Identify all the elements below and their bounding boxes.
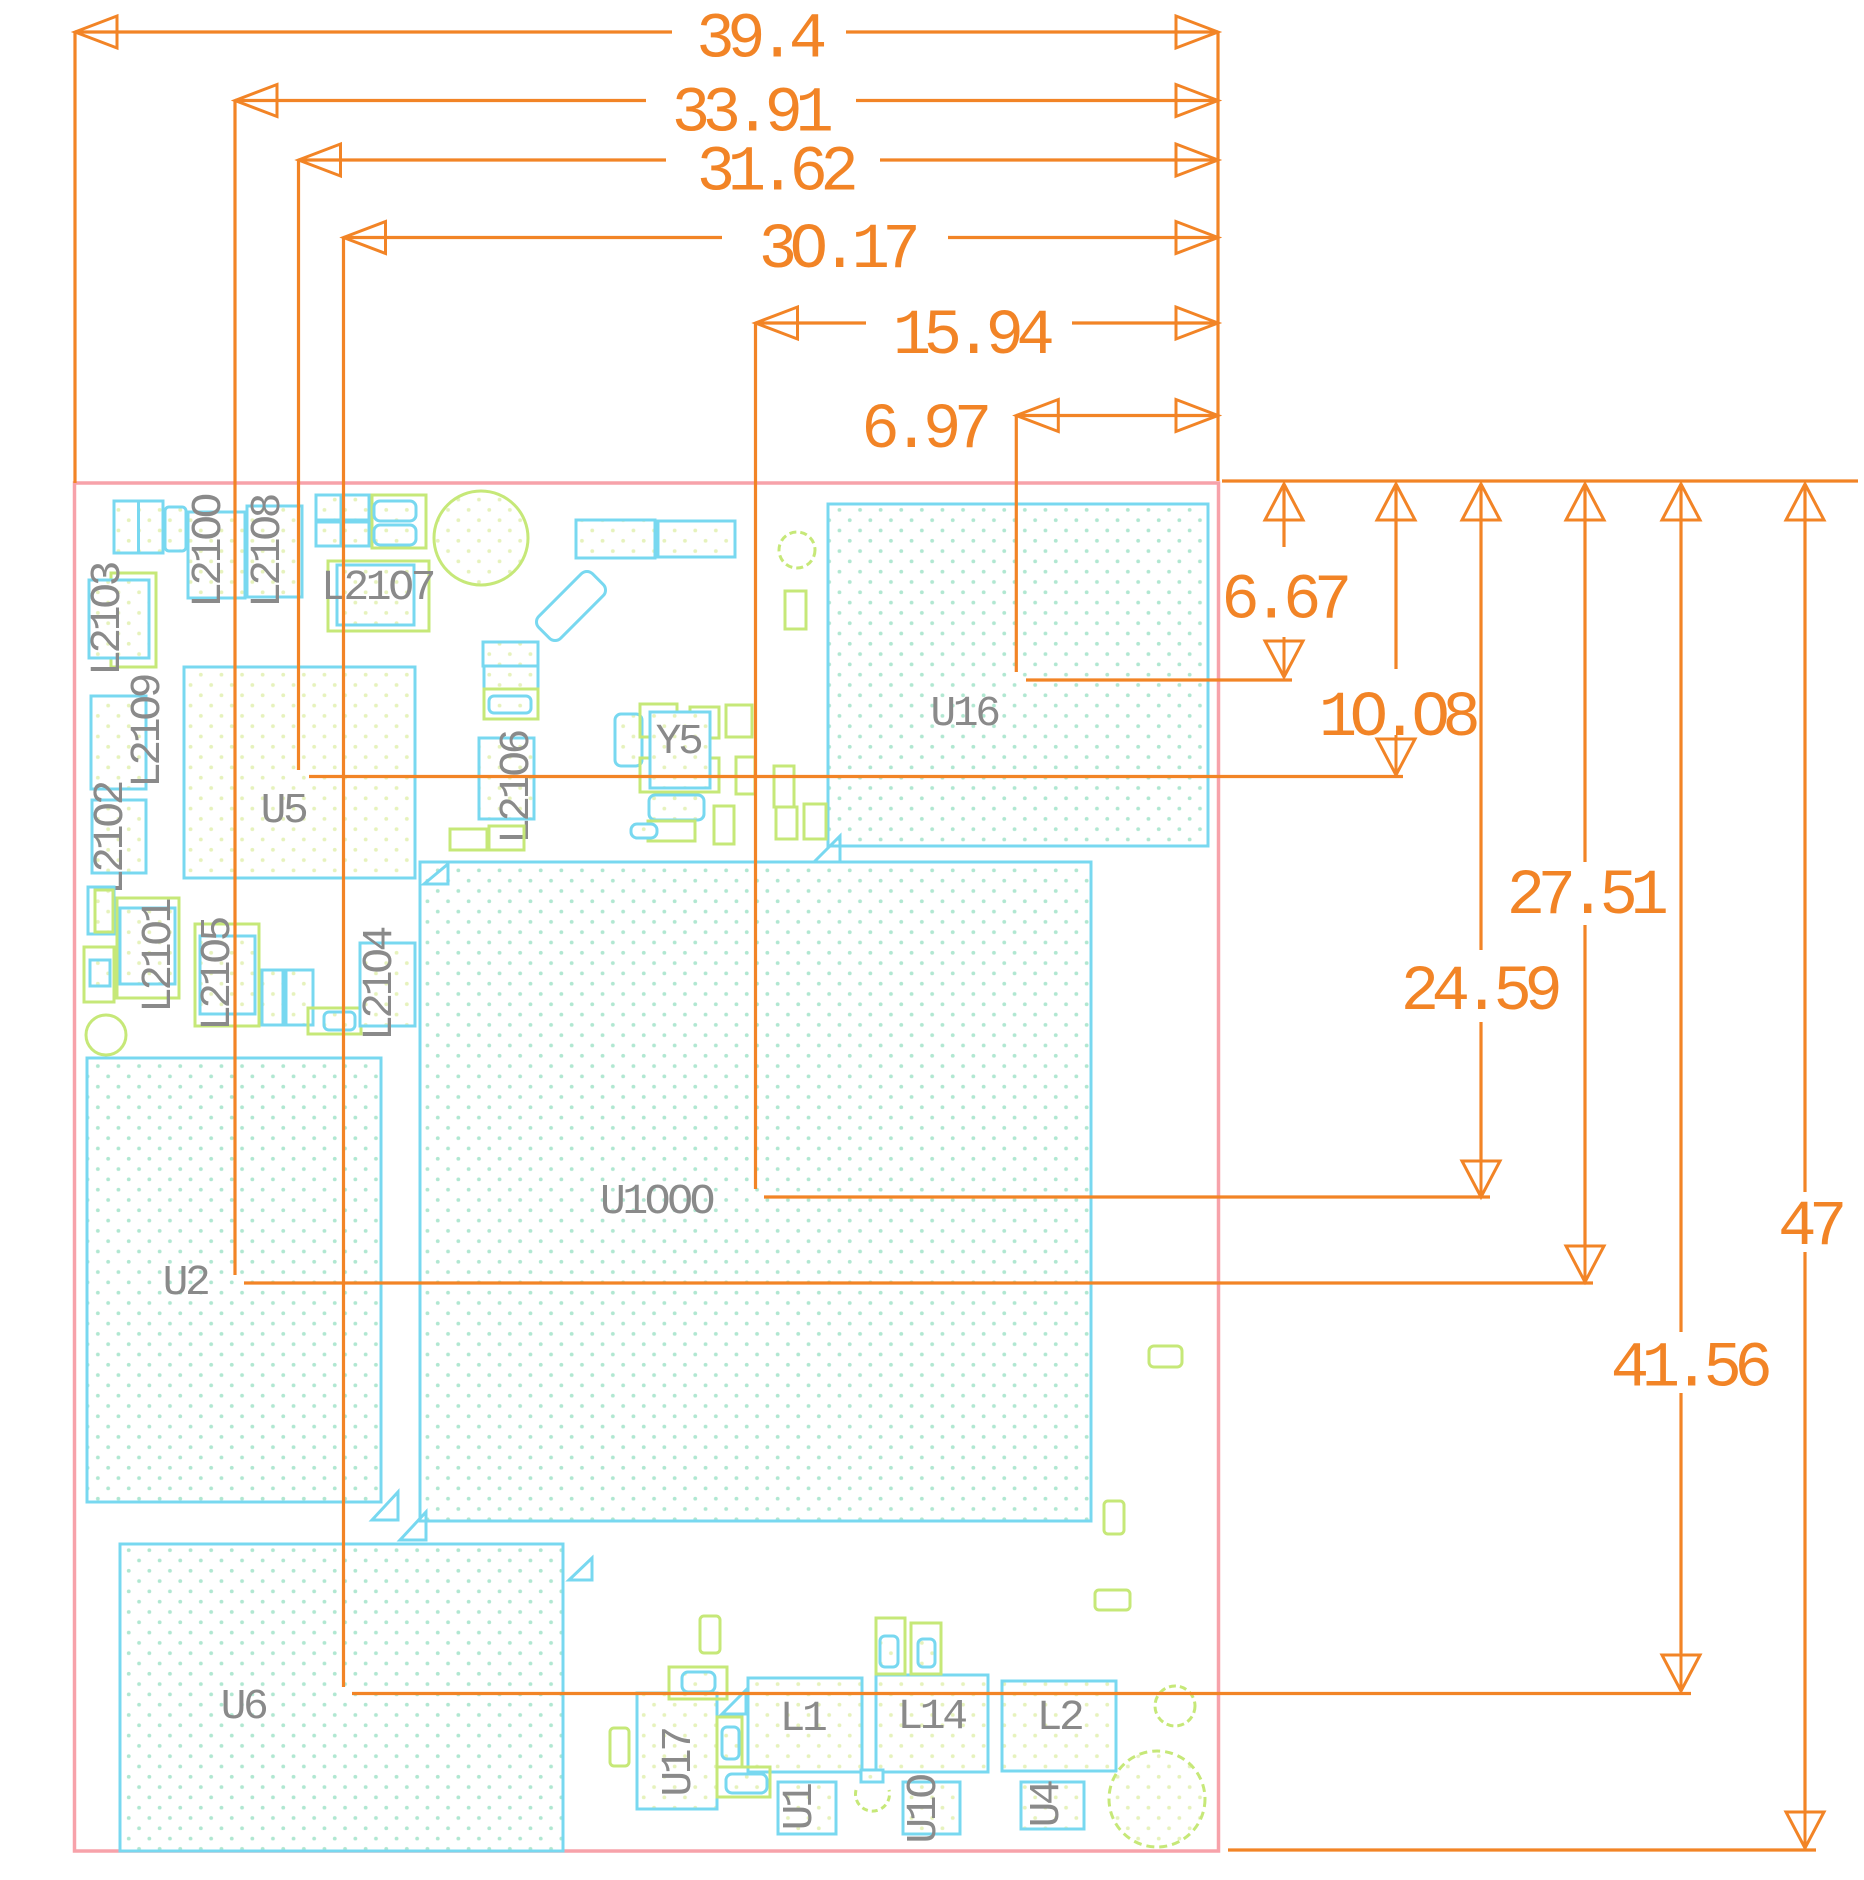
svg-text:L21O2: L21O2 — [86, 782, 135, 895]
svg-text:U6: U6 — [221, 1682, 267, 1731]
part on top of U17 — [669, 1667, 727, 1699]
green part — [1095, 1590, 1130, 1610]
svg-text:L21O7: L21O7 — [321, 563, 434, 612]
bottom reference line right — [1228, 1848, 1816, 1851]
svg-text:L1: L1 — [780, 1694, 826, 1743]
dimension 41.56 — [1679, 484, 1682, 1332]
IC U1000 — [420, 862, 1091, 1521]
green pads above L14 — [876, 1618, 905, 1674]
svg-text:U17: U17 — [654, 1729, 703, 1797]
inductor L14 — [876, 1675, 988, 1772]
dimension 6.97 — [1016, 414, 1218, 417]
pad below Y5 — [649, 795, 704, 820]
U1000 pin marker triangles — [424, 864, 448, 884]
green part above U17 — [700, 1616, 720, 1653]
regulator U17 — [637, 1693, 717, 1809]
IC U1 — [778, 1782, 836, 1834]
mounting hole left — [86, 1015, 126, 1055]
svg-text:U4: U4 — [1022, 1781, 1071, 1827]
part between U17 and L1 — [717, 1717, 742, 1767]
crystal Y5 — [640, 704, 677, 737]
green pad right of Y5 — [726, 705, 752, 737]
IC U6 — [120, 1544, 563, 1851]
inductor L2108 body — [247, 506, 302, 597]
rotated component — [533, 568, 609, 644]
inductor L2106 — [479, 738, 534, 819]
svg-text:Y5: Y5 — [656, 717, 702, 766]
dimension 47 — [1803, 484, 1806, 1192]
svg-text:L21O8: L21O8 — [243, 495, 292, 608]
svg-text:L21O9: L21O9 — [123, 675, 172, 788]
component pair top-left — [114, 501, 163, 553]
svg-text:L14: L14 — [897, 1692, 966, 1741]
small part — [88, 887, 114, 934]
dimension 27.51 — [1583, 484, 1586, 862]
svg-text:41.56: 41.56 — [1611, 1334, 1770, 1406]
svg-text:U5: U5 — [261, 786, 307, 835]
IC U16 — [828, 504, 1208, 846]
green parts left of U16 — [736, 757, 755, 794]
IC U10 — [903, 1782, 960, 1834]
svg-text:L21OO: L21OO — [184, 494, 233, 608]
big hole bottom right — [1109, 1751, 1205, 1847]
dimension 15.94 — [756, 321, 867, 324]
inductor L2109 — [91, 696, 146, 789]
inductor L2107 — [328, 561, 429, 631]
dimension 30.17 — [344, 236, 723, 239]
dimension 39.4 — [75, 30, 672, 33]
small green part — [84, 947, 114, 1002]
svg-text:24.59: 24.59 — [1401, 957, 1559, 1029]
svg-text:47: 47 — [1778, 1192, 1843, 1264]
svg-text:1O.O8: 1O.O8 — [1319, 683, 1478, 755]
stacked pads — [483, 642, 538, 666]
inductor L1 — [748, 1678, 862, 1772]
svg-text:6.97: 6.97 — [861, 395, 988, 467]
inductor L2102 — [92, 800, 146, 873]
inductor L2 — [1002, 1681, 1116, 1771]
IC U16 green silk top/left edge — [830, 507, 1207, 846]
svg-text:L2: L2 — [1037, 1693, 1082, 1742]
mounting hole top — [434, 491, 528, 585]
green part right of U1000 — [1149, 1346, 1182, 1367]
small hole near U16 — [779, 532, 815, 568]
small pad between L1 and L14 — [861, 1770, 883, 1782]
four pads cluster — [316, 495, 341, 520]
svg-text:L21O1: L21O1 — [134, 899, 183, 1013]
top reference line right — [1222, 479, 1858, 482]
U16 pin1 marker triangle — [812, 836, 840, 864]
green part below hole — [785, 591, 806, 629]
svg-text:31.62: 31.62 — [697, 138, 855, 210]
green pads below L2106 — [450, 829, 487, 850]
svg-text:U1OOO: U1OOO — [600, 1177, 714, 1226]
svg-text:6.67: 6.67 — [1221, 566, 1348, 638]
svg-text:U2: U2 — [163, 1258, 208, 1307]
wide pad A — [576, 520, 655, 558]
wide pad B — [658, 521, 735, 557]
inductor L2104 — [360, 943, 415, 1026]
green pad — [714, 806, 734, 844]
dimension 10.08 — [1394, 484, 1397, 669]
inductor L2103 — [111, 573, 156, 667]
crystal Y5 side pad — [615, 714, 642, 766]
svg-text:U1O: U1O — [899, 1775, 948, 1844]
board outline (PCB edge) — [75, 483, 1219, 1851]
svg-text:L21O3: L21O3 — [83, 562, 132, 676]
pin marker near L1 — [722, 1690, 746, 1714]
part below — [717, 1767, 770, 1797]
pad bar below Y5 — [648, 821, 695, 841]
inductor L2101 — [117, 898, 179, 998]
small part with green — [308, 1008, 361, 1034]
IC U4 — [1021, 1782, 1084, 1829]
IC U5 — [184, 667, 415, 878]
two pads — [262, 970, 283, 1025]
dimension 31.62 — [299, 158, 667, 161]
svg-text:U16: U16 — [930, 689, 999, 738]
green component with two pads — [372, 495, 426, 548]
green part — [1104, 1501, 1124, 1534]
svg-text:27.51: 27.51 — [1507, 861, 1667, 933]
svg-text:39.4: 39.4 — [696, 5, 825, 77]
inductor L2100 body — [188, 512, 245, 598]
dimension 24.59 — [1479, 484, 1482, 950]
svg-text:3O.17: 3O.17 — [759, 215, 917, 287]
dimension 33.91 — [235, 99, 646, 102]
small part — [165, 507, 186, 551]
inductor L2105 — [195, 924, 259, 1026]
IC U2 — [87, 1058, 381, 1502]
small hole bottom right — [1155, 1686, 1195, 1726]
dimension 6.67 — [1282, 484, 1285, 547]
green part left of U17 — [610, 1728, 629, 1766]
triangle marker right of U6 — [569, 1558, 592, 1580]
svg-text:15.94: 15.94 — [893, 301, 1053, 373]
svg-text:U1: U1 — [775, 1784, 824, 1830]
green semicircle — [856, 1790, 890, 1811]
svg-text:L21O4: L21O4 — [355, 927, 404, 1041]
